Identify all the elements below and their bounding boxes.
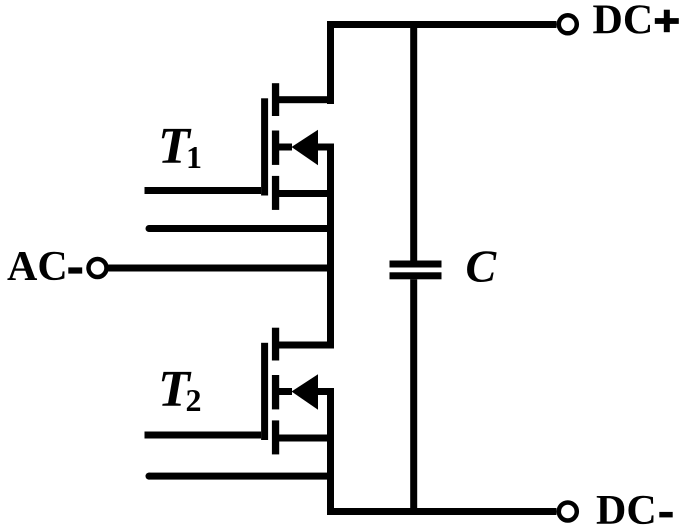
capacitor C top plate [390, 261, 442, 268]
transistor T1 gate bar [261, 98, 268, 195]
transistor T2 gate bar [261, 343, 268, 440]
transistor T1 channel bottom segment (source) [272, 176, 279, 210]
transistor T1 channel top segment (drain) [272, 83, 279, 116]
body diode of T2 arrow [292, 374, 319, 409]
wire T1 drain vertical to top rail [327, 21, 334, 104]
wire T1 body diode to bus [318, 144, 334, 151]
wire T1 kelvin source lead [149, 225, 335, 232]
capacitor C top lead [410, 21, 417, 261]
svg-text:C: C [466, 241, 498, 292]
wire T2 drain horizontal [275, 342, 334, 349]
wire T2 source horizontal [275, 435, 334, 442]
svg-text:DC: DC [593, 0, 654, 44]
body diode of T1 arrow [292, 130, 319, 165]
svg-text:AC: AC [7, 244, 68, 290]
wire bottom DC- rail [327, 508, 557, 515]
transistor T2 channel top segment (drain) [272, 328, 279, 361]
node DC- bus (T2 source to bottom rail) [327, 388, 334, 515]
svg-text:1: 1 [186, 139, 202, 175]
capacitor C bottom plate [390, 272, 442, 279]
body diode of T1 anode stub [275, 144, 292, 151]
wire T2 body diode to bus [318, 388, 334, 395]
terminal DC- [559, 503, 577, 521]
svg-text:DC: DC [596, 488, 657, 530]
transistor T2 channel middle segment (body) [272, 375, 279, 409]
wire T1 drain horizontal [275, 96, 334, 103]
wire T1 gate lead [145, 187, 262, 194]
transistor T2 channel bottom segment (source) [272, 420, 279, 454]
body diode of T2 anode stub [275, 388, 292, 395]
node AC bus (T1 source / T2 drain) [327, 144, 334, 349]
wire T2 kelvin source lead [149, 473, 335, 480]
wire T1 source horizontal [275, 190, 334, 197]
terminal AC- [89, 259, 107, 277]
capacitor C bottom lead [410, 279, 417, 515]
wire AC- horizontal [108, 265, 334, 272]
terminal DC+ [559, 15, 577, 33]
svg-text:2: 2 [186, 382, 202, 418]
wire top DC+ rail [327, 21, 557, 28]
wire T2 gate lead [145, 432, 262, 439]
transistor T1 channel middle segment (body) [272, 131, 279, 165]
